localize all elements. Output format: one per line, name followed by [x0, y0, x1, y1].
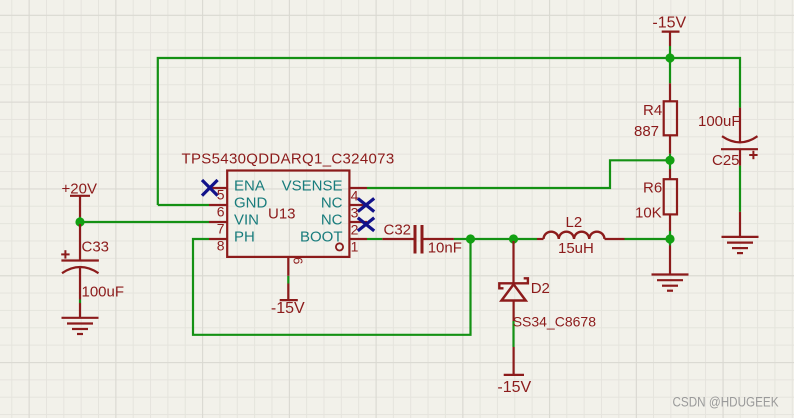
svg-text:5: 5: [217, 187, 225, 203]
svg-text:6: 6: [217, 204, 225, 220]
svg-text:2: 2: [351, 222, 359, 238]
svg-text:VIN: VIN: [234, 212, 259, 229]
svg-text:L2: L2: [566, 214, 583, 231]
svg-text:100uF: 100uF: [698, 113, 741, 130]
svg-text:C33: C33: [82, 239, 110, 256]
svg-text:PH: PH: [234, 229, 255, 246]
svg-text:R4: R4: [643, 102, 662, 119]
svg-text:15uH: 15uH: [558, 240, 594, 257]
svg-text:-15V: -15V: [652, 14, 686, 31]
svg-text:-15V: -15V: [497, 379, 531, 396]
svg-text:C25: C25: [712, 152, 740, 169]
svg-text:U13: U13: [268, 206, 296, 223]
svg-text:3: 3: [351, 205, 359, 221]
svg-text:9: 9: [290, 257, 305, 264]
svg-text:SS34_C8678: SS34_C8678: [513, 314, 597, 330]
svg-text:10nF: 10nF: [428, 240, 462, 257]
svg-text:R6: R6: [643, 180, 662, 197]
svg-text:8: 8: [217, 238, 225, 254]
svg-text:+20V: +20V: [62, 181, 97, 198]
svg-text:D2: D2: [531, 280, 550, 297]
svg-text:BOOT: BOOT: [300, 229, 343, 246]
svg-text:GND: GND: [234, 195, 268, 212]
svg-text:4: 4: [351, 188, 359, 204]
svg-text:VSENSE: VSENSE: [282, 178, 343, 195]
svg-text:ENA: ENA: [234, 178, 265, 195]
svg-text:-15V: -15V: [271, 300, 305, 317]
svg-text:C32: C32: [384, 222, 412, 239]
svg-text:1: 1: [351, 239, 359, 255]
svg-text:10K: 10K: [635, 205, 662, 222]
svg-text:100uF: 100uF: [82, 284, 125, 301]
svg-text:NC: NC: [321, 212, 343, 229]
svg-text:CSDN @HDUGEEK: CSDN @HDUGEEK: [673, 395, 779, 410]
svg-text:TPS5430QDDARQ1_C324073: TPS5430QDDARQ1_C324073: [182, 151, 395, 168]
svg-text:7: 7: [217, 221, 225, 237]
svg-text:887: 887: [634, 123, 659, 140]
svg-text:NC: NC: [321, 195, 343, 212]
